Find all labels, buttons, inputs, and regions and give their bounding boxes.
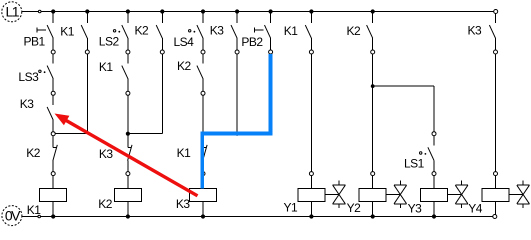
svg-text:K1: K1 [27,203,42,217]
svg-text:K2: K2 [135,24,150,38]
svg-text:Y3: Y3 [408,201,423,215]
svg-text:K3: K3 [210,24,225,38]
svg-text:PB2: PB2 [241,35,263,49]
svg-text:K3: K3 [176,197,191,211]
svg-text:Y2: Y2 [347,201,362,215]
svg-text:K2: K2 [347,24,362,38]
svg-text:K1: K1 [60,25,75,39]
svg-text:Y4: Y4 [468,201,483,215]
svg-text:K1: K1 [177,146,192,160]
svg-text:0V: 0V [5,207,21,223]
svg-text:LS2: LS2 [99,35,120,49]
svg-text:K3: K3 [468,24,483,38]
svg-text:K1: K1 [284,24,299,38]
svg-text:K1: K1 [99,60,114,74]
svg-text:LS4: LS4 [174,35,195,49]
svg-text:PB1: PB1 [24,35,46,49]
svg-text:K3: K3 [99,147,114,161]
svg-text:K3: K3 [20,97,35,111]
svg-text:LS3: LS3 [18,70,39,84]
svg-text:K2: K2 [98,197,113,211]
svg-text:K2: K2 [177,59,192,73]
svg-text:L1: L1 [6,4,20,20]
svg-text:Y1: Y1 [284,200,299,214]
svg-text:K2: K2 [26,146,41,160]
svg-text:LS1: LS1 [404,157,425,171]
